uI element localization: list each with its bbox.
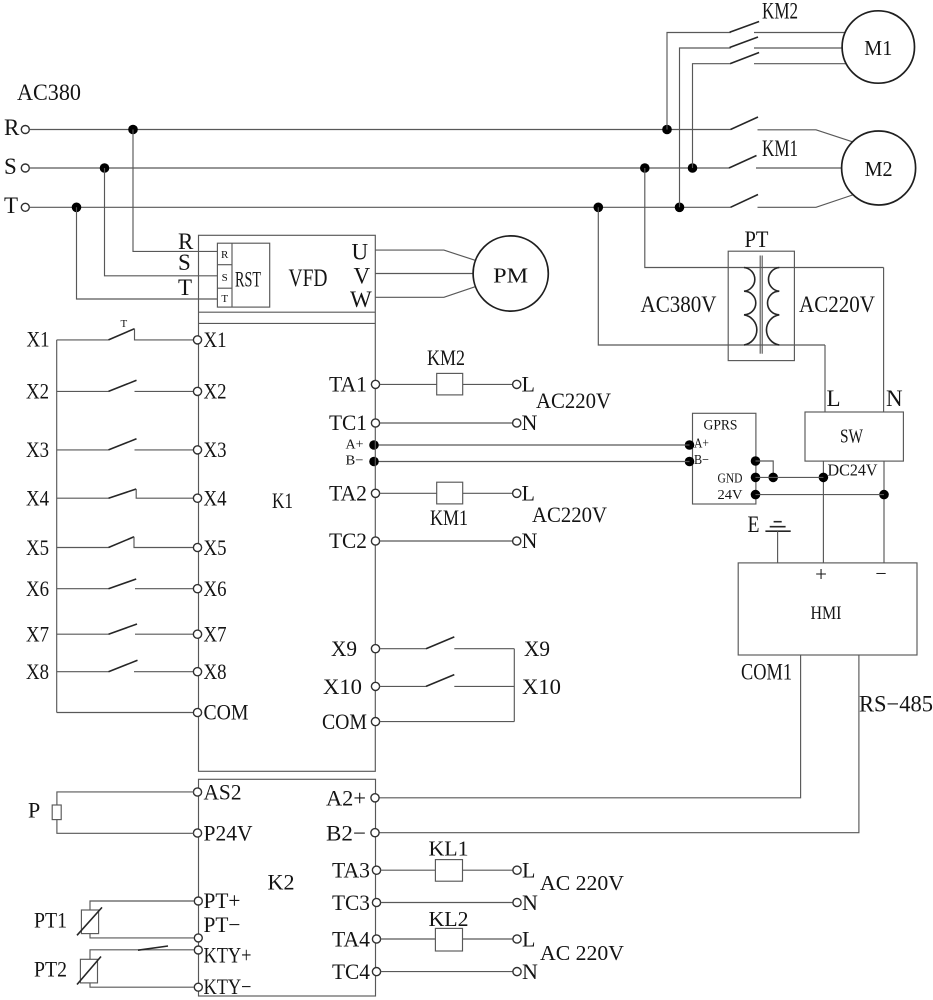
svg-text:X3: X3 (204, 437, 227, 462)
svg-text:P: P (28, 798, 40, 823)
svg-text:A2+: A2+ (326, 786, 366, 811)
svg-text:U: U (352, 240, 369, 265)
switch X8 (26, 659, 194, 684)
module GPRS box (693, 413, 756, 504)
wire COM1 A2+ (377, 655, 801, 798)
svg-text:VFD: VFD (289, 265, 328, 292)
input X9 (331, 636, 550, 661)
wire coil KL1 to L (463, 869, 514, 871)
terminal N3 (513, 890, 538, 915)
svg-text:RS−485: RS−485 (859, 692, 933, 717)
svg-text:X6: X6 (204, 576, 227, 601)
svg-text:A+: A+ (694, 437, 709, 452)
wire KM2 riser 2 (680, 48, 731, 207)
wire phase R (30, 129, 731, 131)
node S-VFD tap (100, 163, 110, 173)
terminal X8 (193, 659, 226, 684)
motor M2 (842, 131, 916, 205)
node GPRS B- (685, 457, 695, 467)
wire KM2 pole1 to M1 (754, 32, 846, 34)
coil KL2 (429, 907, 469, 951)
svg-text:SW: SW (840, 426, 863, 448)
node GPRS 24V (751, 490, 761, 500)
svg-text:L: L (522, 372, 535, 397)
svg-text:K2: K2 (268, 870, 295, 895)
svg-text:S: S (222, 272, 228, 284)
divider line K1 top (199, 322, 376, 324)
svg-text:KL2: KL2 (429, 907, 469, 931)
svg-text:W: W (350, 287, 372, 312)
terminal X5 (193, 535, 226, 560)
wire W to PM (375, 286, 476, 297)
coil KM1 (430, 482, 468, 530)
block RST box (217, 243, 269, 307)
svg-text:KM1: KM1 (430, 505, 468, 530)
terminal PT+ (194, 888, 240, 913)
svg-text:TC1: TC1 (329, 410, 367, 435)
terminal L3 (513, 858, 536, 883)
svg-text:X9: X9 (524, 636, 550, 661)
contactor KM2 pole 3 (730, 53, 759, 64)
terminal X2 (193, 379, 226, 404)
terminal X7 (193, 622, 226, 647)
terminal L2 (513, 481, 535, 506)
relay output TA2 (329, 481, 437, 506)
node S-PT tap (640, 163, 650, 173)
switch X5 (26, 535, 194, 560)
svg-text:TC4: TC4 (332, 959, 370, 984)
transformer PT core (760, 256, 762, 354)
svg-text:TC3: TC3 (332, 890, 370, 915)
sensor PT2 (34, 950, 194, 987)
terminal KTY+ (194, 943, 251, 968)
wire coil KL2 to L (463, 938, 514, 940)
svg-text:X5: X5 (26, 535, 49, 560)
svg-text:X3: X3 (26, 437, 49, 462)
svg-text:V: V (354, 264, 371, 289)
relay output TA3 (332, 858, 435, 883)
wire N drop to SW (883, 268, 885, 413)
wire KM2 riser 1 (667, 33, 731, 130)
svg-text:X2: X2 (204, 379, 227, 404)
svg-text:K1: K1 (272, 488, 293, 513)
node S-KM2 tap (688, 163, 698, 173)
wire coil KM1 to L (463, 492, 513, 494)
switch X2 (26, 379, 194, 404)
relay output TC2 (329, 528, 513, 553)
terminal A2+ (326, 786, 379, 811)
wire S-tap to PT primary top and N (645, 168, 884, 268)
terminal P24V (193, 821, 252, 846)
wire KM2 pole3 to M1 (754, 63, 847, 65)
svg-text:TA3: TA3 (332, 858, 370, 883)
terminal T (4, 193, 29, 218)
svg-text:KTY−: KTY− (204, 974, 252, 999)
svg-text:N: N (522, 890, 538, 915)
terminal PT- (194, 912, 240, 942)
wire COM row (57, 712, 194, 714)
svg-text:KM2: KM2 (762, 0, 798, 24)
terminal L1 (513, 372, 535, 397)
svg-text:S: S (178, 250, 191, 275)
svg-text:L: L (827, 386, 841, 411)
svg-text:X9: X9 (331, 636, 357, 661)
svg-text:KM2: KM2 (427, 345, 465, 370)
svg-text:AC380V: AC380V (641, 292, 717, 317)
svg-text:A+: A+ (346, 438, 364, 453)
wire X9 X10 common (513, 649, 515, 722)
svg-text:GPRS: GPRS (704, 418, 738, 434)
ground symbol (765, 522, 790, 563)
coil KM2 (427, 345, 465, 395)
node T-KM2 tap (675, 203, 685, 213)
svg-text:PM: PM (493, 264, 528, 288)
contactor KM1 pole S (729, 156, 757, 169)
input COM2 (322, 709, 514, 734)
svg-text:X5: X5 (204, 535, 227, 560)
svg-text:R: R (4, 115, 20, 140)
svg-text:B−: B− (694, 453, 709, 468)
wire B- bus (376, 461, 690, 463)
relay output TC4 (332, 959, 513, 984)
contactor KM1 pole T (731, 195, 759, 208)
svg-text:X1: X1 (204, 327, 227, 352)
wire KM1 poleT to M2 (758, 195, 853, 207)
svg-text:KTY+: KTY+ (204, 943, 252, 968)
transformer PT secondary winding (766, 268, 779, 346)
svg-text:AC380: AC380 (17, 80, 81, 105)
switch X7 (26, 622, 194, 647)
svg-text:DC24V: DC24V (828, 461, 879, 480)
svg-text:X4: X4 (204, 486, 227, 511)
svg-text:AC220V: AC220V (532, 502, 607, 527)
switch X1 (27, 318, 195, 352)
terminal B2- (326, 821, 379, 846)
wire S to VFD input (105, 168, 218, 276)
terminal N2 (513, 528, 538, 553)
svg-text:KL1: KL1 (429, 837, 469, 861)
coil KL1 (429, 837, 469, 882)
svg-text:X10: X10 (522, 674, 561, 699)
svg-text:COM: COM (204, 700, 249, 725)
svg-text:RST: RST (235, 267, 261, 292)
svg-text:X10: X10 (323, 674, 362, 699)
svg-text:−: − (875, 563, 886, 585)
contactor KM2 pole 2 (730, 37, 758, 48)
switch X4 (26, 486, 194, 511)
wire 24V to DC24V- (756, 494, 885, 496)
node K1 A+ (369, 440, 379, 450)
contactor KM2 pole 1 (730, 22, 760, 33)
terminal X4 (193, 486, 226, 511)
terminal X1 (193, 327, 226, 352)
terminal R (4, 115, 29, 140)
wire phase S (30, 167, 730, 169)
wire KM1 poleS to M2 (756, 167, 842, 169)
svg-text:N: N (886, 386, 903, 411)
terminal AS2 (193, 780, 241, 805)
switch X6 (26, 576, 194, 601)
relay output TC1 (329, 410, 513, 435)
svg-text:X8: X8 (204, 659, 227, 684)
relay output TC3 (332, 890, 513, 915)
node R-KM2 tap (662, 125, 672, 135)
svg-text:N: N (522, 410, 538, 435)
wire U to PM (375, 250, 476, 261)
svg-text:PT+: PT+ (204, 888, 241, 913)
switch X3 (26, 437, 194, 462)
sensor PT1 (34, 901, 194, 938)
svg-text:P24V: P24V (204, 821, 253, 846)
svg-text:T: T (121, 318, 128, 330)
svg-text:X8: X8 (26, 659, 49, 684)
wire V to PM (375, 273, 473, 275)
terminal COM (193, 700, 248, 725)
svg-text:T: T (221, 293, 228, 305)
svg-text:X7: X7 (204, 622, 227, 647)
svg-text:R: R (221, 249, 229, 261)
svg-text:M1: M1 (864, 36, 892, 60)
terminal S (4, 154, 29, 179)
terminal X6 (193, 576, 226, 601)
svg-text:T: T (4, 193, 18, 218)
svg-text:PT1: PT1 (34, 908, 67, 933)
inverter VFD outer box (199, 235, 376, 771)
svg-text:X1: X1 (27, 327, 50, 352)
wire KM1 poleR to M2 (758, 130, 853, 142)
wire L drop to SW (824, 345, 826, 412)
svg-text:E: E (748, 512, 760, 537)
node R-VFD tap (128, 125, 138, 135)
svg-text:AC220V: AC220V (536, 388, 611, 413)
motor M1 (842, 11, 914, 83)
wire KM2 riser 3 (693, 64, 731, 168)
relay output TA1 (329, 372, 437, 397)
svg-text:TA1: TA1 (329, 372, 367, 397)
svg-text:S: S (4, 154, 17, 179)
svg-text:X7: X7 (26, 622, 49, 647)
terminal KTY- (194, 974, 251, 999)
svg-text:X4: X4 (26, 486, 49, 511)
panel HMI box (738, 562, 917, 655)
divider line VFD bottom (199, 311, 376, 313)
svg-text:B−: B− (346, 454, 364, 469)
svg-text:TA4: TA4 (332, 927, 370, 952)
node K1 B- (369, 457, 379, 467)
node DC24V- (879, 490, 889, 500)
node T-VFD tap (72, 203, 82, 213)
svg-text:N: N (522, 528, 538, 553)
terminal X3 (193, 437, 226, 462)
svg-text:+: + (815, 562, 827, 586)
svg-text:M2: M2 (865, 157, 893, 181)
wire B to GND jog (756, 461, 774, 477)
node DC24V+ (819, 473, 829, 483)
terminal N1 (513, 410, 538, 435)
terminal N4 (513, 959, 538, 984)
wire A+ bus (376, 444, 690, 446)
svg-text:24V: 24V (718, 488, 743, 503)
svg-text:TC2: TC2 (329, 528, 367, 553)
wire DC24V+ drop SW to HMI (822, 461, 824, 563)
svg-text:GND: GND (718, 472, 743, 487)
svg-text:T: T (178, 275, 192, 300)
svg-text:HMI: HMI (811, 603, 842, 624)
svg-text:TA2: TA2 (329, 481, 367, 506)
svg-text:N: N (522, 959, 538, 984)
wire T-tap to PT primary bottom and L (598, 207, 825, 345)
svg-text:PT2: PT2 (34, 957, 67, 982)
svg-text:COM: COM (322, 709, 367, 734)
relay output TA4 (332, 927, 435, 952)
node T-PT tap (594, 203, 604, 213)
module K2 box (199, 779, 376, 996)
svg-text:L: L (522, 927, 535, 952)
terminal L4 (513, 927, 536, 952)
wire RS485 B2- (377, 655, 859, 833)
svg-text:B2−: B2− (326, 821, 366, 846)
svg-text:AC220V: AC220V (799, 292, 875, 317)
node jog junction (768, 473, 778, 483)
wire left input bus (56, 340, 58, 713)
wire R to VFD input (133, 130, 217, 252)
svg-text:AC 220V: AC 220V (540, 871, 624, 895)
svg-text:PT: PT (745, 227, 769, 252)
switch box SW (805, 412, 903, 461)
transformer PT primary winding (744, 268, 757, 346)
node GPRS right B (751, 456, 761, 466)
motor PM (473, 236, 548, 311)
transformer PT box (728, 251, 794, 360)
wire T to VFD input (77, 207, 218, 299)
svg-text:L: L (522, 858, 535, 883)
wire DC24V- drop SW to HMI (883, 461, 885, 563)
wire KM2 pole2 to M1 (754, 47, 842, 49)
contactor KM1 pole R (731, 117, 759, 130)
wire GND to DC24V (756, 476, 824, 478)
svg-text:PT−: PT− (204, 912, 241, 937)
wire phase T (30, 206, 731, 208)
svg-text:AS2: AS2 (204, 780, 242, 805)
svg-text:KM1: KM1 (762, 136, 798, 161)
node GPRS GND (751, 473, 761, 483)
svg-text:COM1: COM1 (741, 660, 792, 685)
node GPRS A+ (685, 440, 695, 450)
input X10 (323, 674, 561, 699)
svg-text:X6: X6 (26, 576, 49, 601)
wire coil KM2 to L (463, 383, 513, 385)
svg-text:AC 220V: AC 220V (540, 941, 624, 965)
svg-text:X2: X2 (26, 379, 49, 404)
wire tick kty (138, 946, 168, 950)
resistor P (28, 792, 194, 833)
